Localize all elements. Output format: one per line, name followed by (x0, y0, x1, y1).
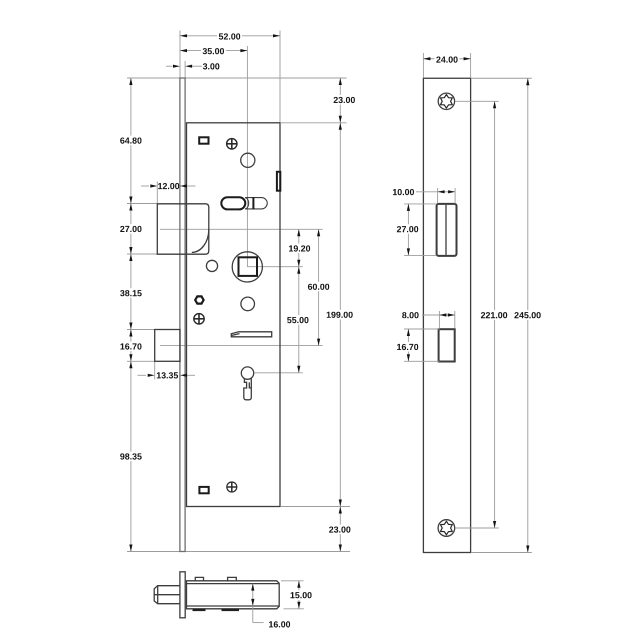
latch cutout (437, 204, 457, 256)
ext torx bottom centerline (455, 527, 499, 529)
arrows 16.00 (251, 584, 254, 591)
ext line deadbolt bottom (127, 360, 155, 362)
latch bevel arc (192, 230, 209, 253)
ext line latch bottom (127, 253, 157, 255)
label 221.00 (480, 310, 509, 320)
dim line 15.00 (298, 581, 300, 609)
dim line 199.00 / 23.00 bottom (339, 123, 341, 552)
dim line 221.00 (494, 101, 496, 528)
arrows 16.70 (129, 330, 132, 337)
label 38.15 (118, 288, 143, 298)
label 98.35 (118, 452, 143, 462)
arrows 38.15 (129, 254, 132, 261)
arrows 60.00 (317, 229, 320, 236)
label 27.00 right view (395, 224, 420, 234)
dark clip marks bottom (193, 609, 240, 611)
slot on body right edge (277, 172, 280, 191)
dim line 245.00 (527, 78, 529, 552)
label 16.70 (118, 342, 143, 352)
label 55.00 (285, 315, 310, 325)
phillips screw bottom (227, 482, 237, 492)
arrows 52.00 (180, 34, 187, 37)
ext line body bottom (y=506.5) (281, 506, 350, 508)
torx star top (441, 95, 453, 109)
ext latch cutout top/bottom left (404, 203, 436, 205)
ext deadbolt cutout for 8.00 (438, 311, 440, 329)
tab post 1 (195, 577, 203, 580)
ext line faceplate top (y=78) (127, 77, 347, 79)
arrows 55.00 (297, 267, 300, 274)
ext line faceplate right edge up (184, 61, 186, 78)
arrows 13.35 (148, 374, 155, 377)
spring pill thin (right) (245, 198, 267, 209)
faceplate bar (bottom view) (180, 572, 185, 618)
ext line keyhole centerline (255, 372, 303, 374)
ext torx top centerline (455, 100, 499, 102)
dim line 27.00 right view (407, 204, 409, 256)
arrows 23.00 top (339, 78, 342, 85)
arrows 64.80 (129, 78, 132, 85)
ext plate top right (471, 77, 532, 79)
arrows 199.00 (339, 123, 342, 130)
dim line 52.00 (180, 35, 280, 37)
arrows 221.00 (493, 101, 496, 108)
small circle left of spindle (206, 260, 217, 271)
label 60.00 (306, 282, 331, 292)
torx star bottom (441, 521, 453, 535)
dim line 19.20 / 55.00 (298, 229, 300, 372)
tab post 2 (228, 577, 237, 580)
dim line 16.00 + leader (252, 584, 254, 623)
label 199.00 (325, 310, 354, 320)
arrows 3.00 (173, 65, 180, 68)
label 23.00 bottom (327, 525, 352, 535)
arrows 8.00 (439, 313, 446, 316)
dim line 16.70 right view (407, 329, 409, 361)
spring pill thick (221, 197, 245, 209)
torx screw top (438, 93, 454, 109)
latch bolt (side view) (157, 204, 209, 254)
arrows 23.00 bottom (339, 507, 342, 514)
spindle follower circle (232, 252, 262, 282)
phillips screw middle (194, 314, 204, 324)
lever flat bar (231, 332, 271, 337)
body case (bottom view) (187, 581, 280, 609)
faceplate (side view) (180, 78, 185, 552)
arrows 245.00 (526, 78, 529, 85)
label 52.00 (217, 31, 242, 41)
ext deadbolt cutout top/bottom left (404, 328, 439, 330)
small rectangular hole bottom (199, 487, 208, 493)
dim line 24.00 (423, 58, 470, 60)
dim line 13.35 tails (138, 374, 147, 376)
ext line body right edge up (279, 31, 281, 123)
label 12.00 (158, 183, 179, 189)
circle upper (241, 153, 255, 167)
keyhole (241, 367, 253, 379)
arrows 24.00 (423, 57, 430, 60)
dim line 12.00 tails (141, 185, 149, 187)
label 8.00 (400, 310, 421, 320)
label 16.00 (269, 621, 290, 627)
label 15.00 (289, 590, 314, 600)
label 23.00 top (332, 95, 357, 105)
label 19.20 (287, 244, 312, 254)
ext body top (bottom view) (281, 580, 304, 582)
dim line 35.00 (180, 50, 247, 52)
dim line 60.00 (318, 229, 320, 345)
label 27.00 (118, 224, 143, 234)
latch bolt (bottom view) (154, 586, 180, 604)
faceplate front outline (423, 78, 470, 552)
hex nut (195, 296, 203, 303)
ext line deadbolt face down (154, 362, 156, 380)
phillips screw top (227, 139, 237, 149)
ext line faceplate left edge up (179, 31, 181, 78)
lock body case (187, 123, 281, 507)
label 64.80 (118, 136, 143, 146)
torx screw bottom (438, 520, 455, 537)
deadbolt cutout (439, 329, 455, 361)
ext body bottom (bottom view) (284, 608, 304, 610)
right view extension + dim lines (404, 53, 532, 553)
label 24.00 (435, 55, 460, 65)
left dimension column line (130, 78, 132, 552)
ext plate left up (422, 53, 424, 78)
label 35.00 (201, 46, 226, 56)
dim line 23.00 top (339, 78, 341, 123)
ext line deadbolt top (127, 329, 155, 331)
ext line latch face up (156, 182, 158, 204)
dim line 3.00 tails (166, 65, 173, 67)
arrows 35.00 (180, 49, 187, 52)
ext plate right up (470, 53, 472, 78)
label 10.00 (391, 187, 416, 197)
arrows 15.00 (297, 581, 300, 588)
ext line latch centerline (160, 228, 323, 230)
label 3.00 (203, 63, 220, 69)
small rectangular hole top (199, 137, 208, 143)
label 245.00 (513, 310, 542, 320)
deadbolt (side view) (155, 330, 180, 362)
spindle square hole (239, 257, 258, 276)
ext line spindle centerline (248, 266, 303, 268)
label 16.70 right view (395, 342, 420, 352)
arrows 12.00 (150, 184, 157, 187)
dim line 8.00 + leader (422, 314, 455, 316)
vertical centerline of lock body (246, 46, 248, 267)
ext plate bottom right (471, 552, 532, 554)
arrows 10.00 (438, 190, 445, 193)
dim line 10.00 + leader (416, 191, 455, 193)
arrows 16.70 right view (407, 329, 410, 336)
arrows 98.35 (129, 361, 132, 368)
ext line body top (y=122.8) (281, 122, 347, 124)
arrows 19.20 (297, 229, 300, 236)
arrows 27.00 (129, 204, 132, 211)
label 13.35 (157, 372, 178, 378)
ext line deadbolt centerline (160, 345, 323, 347)
ext cutout left/right for 10.00 (437, 188, 439, 204)
follower crank edge (252, 197, 254, 209)
ext line latch top (127, 203, 157, 205)
circle below spindle (241, 297, 255, 311)
ext line faceplate bottom (y=551.5) (127, 551, 350, 553)
arrows 27.00 right view (407, 204, 410, 211)
